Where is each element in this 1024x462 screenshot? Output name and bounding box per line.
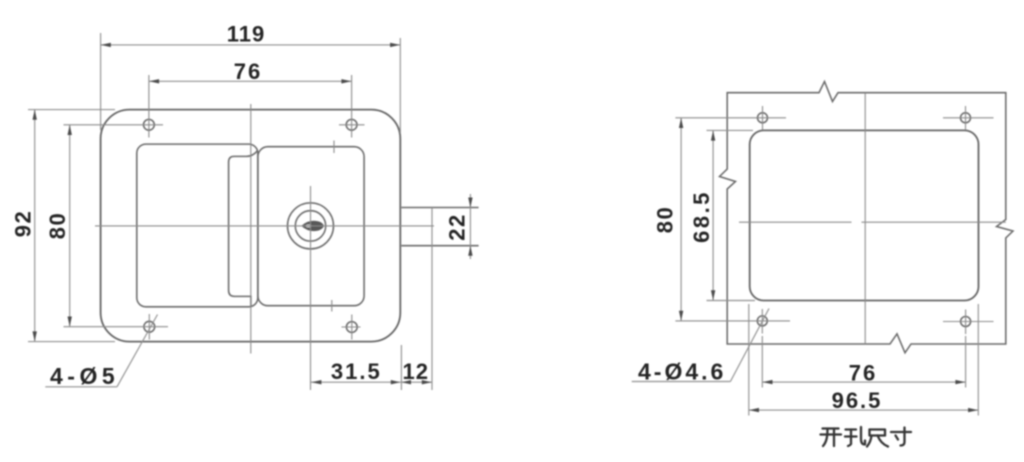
svg-text:12: 12 xyxy=(403,359,429,384)
cutout hole bottom-left xyxy=(757,316,767,326)
latch bolt lower edge xyxy=(401,245,478,247)
dimension 80 xyxy=(69,125,71,327)
lock housing xyxy=(258,147,364,306)
housing top tick xyxy=(333,141,335,154)
dimension 22 xyxy=(469,194,471,259)
plate outline xyxy=(101,110,401,342)
caption: chi (rule) xyxy=(867,430,888,447)
svg-text:68.5: 68.5 xyxy=(689,190,714,243)
dimension 76 xyxy=(149,80,352,82)
svg-text:4-Ø4.6: 4-Ø4.6 xyxy=(638,359,726,385)
latch bolt tip line xyxy=(431,208,433,391)
key vertical centerline xyxy=(310,186,312,390)
cutout vertical centerline xyxy=(864,93,866,344)
svg-text:92: 92 xyxy=(11,210,36,237)
svg-text:31.5: 31.5 xyxy=(331,359,382,384)
dimension 76 right xyxy=(762,381,965,383)
svg-text:80: 80 xyxy=(45,212,70,239)
cutout hole bottom-right xyxy=(961,317,971,327)
caption: kai (open) xyxy=(821,429,842,447)
svg-text:76: 76 xyxy=(849,361,877,386)
key cylinder inner circle xyxy=(295,211,325,241)
key cylinder outer circle xyxy=(288,203,334,249)
dimension 68.5 xyxy=(712,130,714,300)
svg-text:119: 119 xyxy=(227,22,266,47)
key slot xyxy=(301,221,324,231)
svg-text:22: 22 xyxy=(445,213,470,240)
svg-text:4-Ø5: 4-Ø5 xyxy=(50,363,119,389)
dimension 119 xyxy=(101,44,401,46)
hole top-right xyxy=(346,119,357,130)
housing bottom tick xyxy=(331,300,333,312)
panel outline with break marks xyxy=(720,82,1014,353)
dimension 92 xyxy=(34,110,36,342)
cutout hole top-right xyxy=(961,113,971,123)
paddle recess xyxy=(137,144,258,307)
key horizontal centerline xyxy=(95,225,434,227)
svg-text:96.5: 96.5 xyxy=(832,388,883,413)
hole bottom-left xyxy=(144,321,155,332)
caption: kong (hole) xyxy=(845,427,865,446)
dimension 31.5 and 12 xyxy=(311,381,432,383)
cutout horizontal centerline xyxy=(739,221,852,223)
cutout opening xyxy=(750,130,979,300)
cutout hole top-left xyxy=(758,113,768,123)
dimension 96.5 xyxy=(749,409,979,411)
svg-text:80: 80 xyxy=(653,206,678,233)
plate vertical centerline xyxy=(250,104,252,354)
caption: cun (inch) xyxy=(891,428,911,446)
hole top-left xyxy=(144,119,155,130)
svg-text:76: 76 xyxy=(234,59,262,84)
dimension 80 right xyxy=(680,118,682,321)
latch bolt upper edge xyxy=(401,207,478,209)
paddle grip step xyxy=(229,151,258,307)
hole bottom-right xyxy=(346,322,357,333)
